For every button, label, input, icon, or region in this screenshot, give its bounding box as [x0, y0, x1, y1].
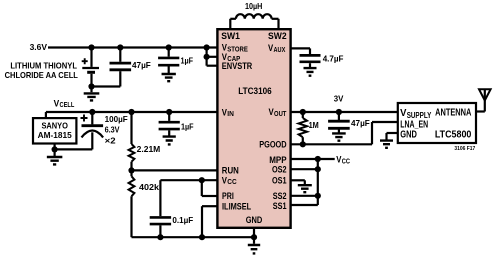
svg-text:OUT: OUT [274, 109, 287, 118]
svg-text:PGOOD: PGOOD [259, 139, 287, 150]
svg-text:1M: 1M [309, 121, 319, 130]
svg-text:3.6V: 3.6V [30, 43, 48, 52]
svg-text:6.3V: 6.3V [105, 126, 120, 135]
svg-text:LITHIUM THIONYL: LITHIUM THIONYL [10, 60, 77, 70]
svg-text:AUX: AUX [274, 45, 286, 54]
svg-text:ANTENNA: ANTENNA [435, 107, 472, 118]
svg-text:3V: 3V [334, 94, 344, 103]
svg-text:1µF: 1µF [181, 56, 194, 65]
svg-text:×2: ×2 [105, 136, 117, 145]
svg-text:0.1µF: 0.1µF [172, 216, 193, 225]
svg-text:OS2: OS2 [272, 163, 287, 174]
svg-text:SANYO: SANYO [41, 121, 68, 130]
svg-text:CHLORIDE AA CELL: CHLORIDE AA CELL [5, 70, 78, 80]
svg-text:47µF: 47µF [351, 119, 370, 128]
svg-text:2.21M: 2.21M [137, 145, 161, 154]
svg-text:GND: GND [400, 130, 417, 141]
svg-text:ENVSTR: ENVSTR [222, 60, 253, 71]
svg-text:402k: 402k [139, 183, 159, 192]
svg-text:100µF: 100µF [105, 115, 128, 124]
svg-text:LTC5800: LTC5800 [435, 129, 472, 140]
svg-text:ILIMSEL: ILIMSEL [222, 200, 251, 211]
svg-text:4.7µF: 4.7µF [323, 55, 344, 64]
svg-text:CC: CC [227, 177, 236, 186]
svg-text:STORE: STORE [227, 44, 248, 53]
svg-text:IN: IN [227, 109, 234, 118]
svg-text:LTC3106: LTC3106 [238, 85, 271, 96]
svg-text:47µF: 47µF [132, 61, 151, 70]
svg-text:OS1: OS1 [272, 175, 287, 186]
svg-text:3106 F17: 3106 F17 [454, 146, 475, 152]
svg-text:AM-1815: AM-1815 [38, 131, 72, 140]
svg-text:SS1: SS1 [273, 200, 287, 211]
svg-text:V: V [400, 108, 406, 119]
svg-text:1µF: 1µF [181, 122, 194, 131]
svg-text:10µH: 10µH [245, 2, 262, 11]
svg-text:SW2: SW2 [268, 30, 287, 41]
svg-text:CC: CC [342, 158, 350, 165]
svg-text:GND: GND [246, 214, 263, 225]
svg-text:CELL: CELL [60, 102, 75, 109]
svg-text:SW1: SW1 [221, 30, 240, 41]
